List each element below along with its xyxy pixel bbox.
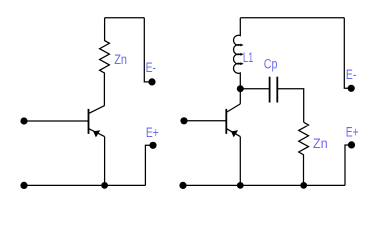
capacitor Cp right plate — [276, 77, 278, 103]
transistor Q2 emitter lead — [226, 129, 240, 137]
wire: base input (right circuit) — [184, 120, 226, 122]
wire: left circuit top rail — [105, 17, 145, 19]
transistor Q1 base bar — [88, 109, 90, 134]
junction: L1 / collector / Cp node — [237, 85, 244, 92]
transistor Q2 base bar — [225, 109, 227, 134]
terminal dot: E+ (right) — [348, 141, 355, 148]
wire: riser from bottom rail to E+ terminal (left) — [145, 145, 153, 185]
terminal dot: bottom rail left end (right circuit) — [179, 182, 186, 189]
svg-text:E-: E- — [146, 60, 156, 75]
junction: emitter / bottom rail (left) — [101, 182, 108, 189]
transistor Q2 collector lead — [226, 104, 240, 113]
wire: drop from top rail to E- terminal (left) — [144, 18, 152, 82]
svg-text:L1: L1 — [243, 50, 253, 65]
svg-text:E+: E+ — [146, 125, 159, 140]
terminal dot: bottom rail left end (left circuit) — [20, 182, 27, 189]
svg-text:E-: E- — [346, 67, 356, 82]
wire: Cp right plate to resistor Zn (right) — [277, 89, 303, 123]
wire: drop from top rail to E- terminal (right) — [344, 18, 351, 89]
wire: emitter down to bottom rail (right) — [239, 137, 241, 186]
wire: right circuit bottom rail — [183, 184, 345, 186]
junction: Zn / bottom rail (right) — [300, 182, 307, 189]
wire: emitter down to bottom rail (left) — [104, 137, 106, 186]
terminal dot: E- (left) — [148, 78, 155, 85]
inductor L1 loop curl ticks — [240, 44, 242, 65]
resistor Zn (right, feedback) with bottom lead — [299, 122, 309, 185]
svg-text:Zn: Zn — [114, 52, 127, 67]
transistor Q2 emitter arrow (PNP) — [231, 130, 238, 137]
wire: collector node to capacitor Cp left plate — [240, 88, 269, 90]
terminal dot: E- (right) — [348, 85, 355, 92]
wire: base input (left circuit) — [24, 120, 89, 122]
wire: riser from bottom rail to E+ terminal (right) — [345, 145, 351, 185]
terminal dot: base input (right) — [180, 117, 187, 124]
terminal dot: base input (left) — [20, 117, 27, 124]
wire: right circuit top rail — [240, 17, 344, 19]
inductor L1 with leads — [234, 18, 241, 104]
transistor Q1 emitter arrow (PNP) — [93, 130, 100, 137]
svg-text:Cp: Cp — [264, 57, 278, 72]
wire: left circuit bottom rail — [24, 184, 145, 186]
svg-text:Zn: Zn — [313, 136, 328, 151]
junction: emitter / bottom rail (right) — [237, 182, 244, 189]
terminal dot: E+ (left) — [149, 142, 156, 149]
transistor Q1 collector lead — [89, 106, 105, 114]
svg-text:E+: E+ — [346, 124, 359, 139]
capacitor Cp left plate — [269, 77, 271, 103]
resistor Zn (left, collector load) with leads — [100, 18, 110, 106]
transistor Q1 emitter lead — [89, 129, 105, 137]
